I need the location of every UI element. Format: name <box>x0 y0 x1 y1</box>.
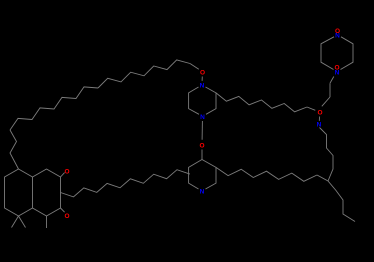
methyl bond under ring R <box>46 216 48 228</box>
svg-text:O: O <box>200 70 205 77</box>
bond O4-N5 <box>318 117 320 121</box>
bond O5-ring2 <box>201 150 203 160</box>
bond chain A to O3 <box>190 64 199 70</box>
ring R (bottom-left dione ring, right) <box>33 169 61 216</box>
bond N4-O5 link <box>201 121 203 140</box>
svg-text:O: O <box>64 213 69 220</box>
bond O3-N3 <box>201 77 203 81</box>
ring3 to O4 link <box>330 77 334 84</box>
svg-text:N: N <box>317 122 322 129</box>
chain C (upper right chain) <box>216 93 307 112</box>
svg-text:N: N <box>335 32 340 39</box>
ring 1 (middle-top hexagon) <box>206 87 217 114</box>
ring 2 (middle-bottom hexagon) <box>202 160 216 190</box>
ring 3 (top-right hexagon) <box>341 37 354 70</box>
methyl bond 1 (gem-dimethyl) <box>12 216 19 228</box>
ring L (bottom-left fused ring, left) <box>5 169 33 216</box>
svg-text:O: O <box>317 110 322 117</box>
svg-text:O: O <box>199 143 204 150</box>
chain A shallow right section <box>98 60 190 88</box>
chain A steep left section <box>10 87 98 130</box>
svg-text:N: N <box>335 69 340 76</box>
chain A descent into ring L top <box>10 130 19 169</box>
N5 to chain D link <box>320 128 334 182</box>
svg-text:N: N <box>200 189 205 196</box>
methyl bond 2 (gem-dimethyl) <box>19 216 26 228</box>
C=O bond to O6 <box>61 173 65 177</box>
chain D (bottom-right long chain) <box>216 167 317 181</box>
bond chain C to O4 <box>307 107 315 110</box>
chain D tail <box>317 175 355 222</box>
svg-text:O: O <box>64 169 69 176</box>
svg-text:N: N <box>200 114 205 121</box>
svg-text:N: N <box>200 83 205 90</box>
chain B (bottom long chain) <box>61 170 190 197</box>
C=O bond to O7 <box>61 208 65 212</box>
